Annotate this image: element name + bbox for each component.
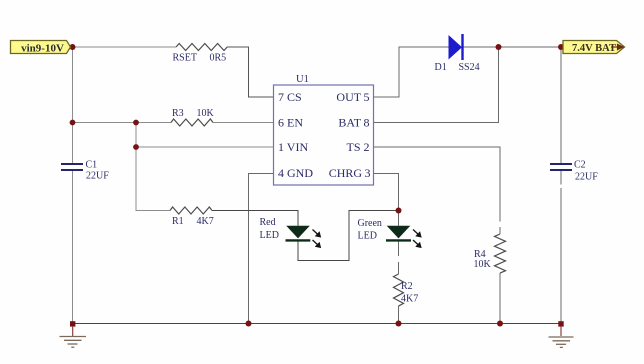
svg-text:vin9-10V: vin9-10V [21,42,64,54]
svg-text:BAT 8: BAT 8 [338,116,369,130]
svg-text:LED: LED [358,231,377,242]
svg-text:22UF: 22UF [575,172,598,183]
svg-text:OUT 5: OUT 5 [336,90,369,104]
svg-text:22UF: 22UF [86,171,109,182]
svg-text:TS 2: TS 2 [346,140,369,154]
svg-text:RSET: RSET [173,53,197,64]
svg-text:4K7: 4K7 [197,216,214,227]
svg-text:C2: C2 [574,160,586,171]
svg-text:C1: C1 [86,160,98,171]
svg-text:7.4V BAT: 7.4V BAT [572,43,616,54]
svg-text:4K7: 4K7 [401,294,418,305]
svg-text:1 VIN: 1 VIN [278,140,308,154]
svg-text:R3: R3 [172,108,184,119]
svg-text:SS24: SS24 [459,62,480,73]
svg-text:4 GND: 4 GND [278,166,313,180]
svg-text:U1: U1 [296,74,309,85]
svg-text:7 CS: 7 CS [278,90,302,104]
svg-text:Green: Green [358,218,382,229]
svg-text:6 EN: 6 EN [278,116,303,130]
svg-text:0R5: 0R5 [210,53,227,64]
svg-text:CHRG 3: CHRG 3 [329,166,371,180]
svg-text:LED: LED [260,230,279,241]
svg-text:Red: Red [260,217,276,228]
svg-text:D1: D1 [435,62,447,73]
svg-text:10K: 10K [474,259,492,270]
svg-text:R1: R1 [172,216,184,227]
svg-text:10K: 10K [197,108,215,119]
svg-text:R2: R2 [401,281,413,292]
